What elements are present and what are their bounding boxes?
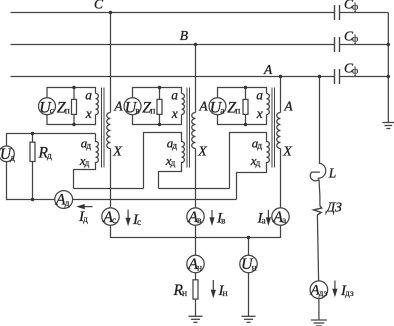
arrow In: [212, 280, 214, 294]
svg-text:A: A: [113, 99, 123, 114]
svg-text:Iд: Iд: [78, 209, 88, 225]
voltmeter Un: [240, 255, 257, 272]
arrow Ic: [127, 210, 129, 223]
svg-text:x: x: [256, 106, 263, 121]
wire bus to Un: [248, 238, 250, 256]
inductor L: [318, 163, 326, 178]
wire cap1 to ground bus: [340, 12, 389, 14]
wire open-delta link xd2-ad3: [159, 188, 230, 190]
ammeter Ad: [55, 191, 73, 209]
arrowhead Ic: [126, 218, 131, 227]
transformer T1 secondary box wires: [47, 88, 96, 99]
winding ad-xd (T3): [230, 133, 270, 200]
resistor Zn (T2): [159, 88, 161, 100]
svg-text:a: a: [256, 87, 263, 102]
wire cap2 to ground bus: [340, 44, 389, 46]
wire T2 primary to Av: [195, 149, 197, 208]
junction dots: [109, 11, 112, 14]
arrow Idz: [334, 281, 336, 294]
core T2: [187, 88, 190, 168]
ground (Adz): [311, 320, 327, 326]
ground (Rn): [189, 316, 203, 322]
svg-text:x: x: [85, 106, 92, 121]
voltmeter U1: [39, 98, 56, 115]
wire neutral bus: [111, 225, 281, 237]
svg-text:a: a: [171, 87, 178, 102]
svg-text:aд: aд: [167, 135, 178, 151]
svg-text:Cф: Cф: [344, 29, 358, 45]
svg-text:X: X: [197, 145, 207, 160]
svg-text:L: L: [328, 166, 337, 181]
svg-text:A: A: [283, 99, 293, 114]
winding A-X (T3 primary): [277, 113, 281, 149]
svg-text:Iс: Iс: [132, 212, 141, 228]
svg-text:X: X: [282, 145, 292, 160]
transformer T3 secondary box wires: [218, 88, 267, 99]
wire T3 primary to Aa: [280, 149, 282, 208]
voltmeter U3: [209, 98, 226, 115]
svg-text:Zп: Zп: [57, 99, 70, 116]
svg-text:xд: xд: [250, 153, 261, 169]
winding ad-xd (T1): [74, 134, 99, 189]
winding a-x (T1 secondary): [96, 94, 99, 115]
svg-text:Rд: Rд: [38, 144, 52, 161]
winding A-X (T2 primary): [192, 113, 196, 149]
wire L branch drop: [319, 77, 321, 164]
svg-text:Cф: Cф: [344, 0, 358, 13]
core T3: [272, 88, 275, 168]
wire DZ to Adz: [317, 215, 318, 281]
wire L to DZ: [318, 179, 321, 205]
wire phase drop T3: [280, 77, 282, 113]
svg-text:Iв: Iв: [216, 210, 226, 226]
resistor Zn (T3): [245, 88, 247, 100]
svg-text:B: B: [180, 28, 188, 43]
arrowhead Idz: [332, 289, 337, 298]
core T1: [102, 88, 105, 168]
ground (Un): [242, 316, 256, 322]
voltmeter Ud: [0, 146, 14, 162]
winding A-X (T1 primary): [107, 113, 111, 149]
phase A busbar: [11, 76, 335, 78]
wire delta return Ad-xd3: [73, 199, 237, 201]
winding ad-xd (T2): [144, 133, 185, 189]
svg-text:ДЗ: ДЗ: [325, 200, 343, 215]
arrowhead Ia: [266, 217, 271, 226]
resistor Rd: [32, 134, 34, 143]
wire phase drop T1: [110, 13, 112, 113]
winding a-x (T3 secondary): [267, 94, 270, 115]
wire Adz to ground: [318, 299, 320, 320]
ammeter Adz: [310, 281, 328, 299]
wire phase drop T2: [195, 45, 197, 113]
svg-text:Rн: Rн: [173, 282, 188, 299]
winding a-x (T2 secondary): [182, 94, 185, 115]
svg-text:Cф: Cф: [344, 61, 358, 77]
ground (right bus): [382, 123, 394, 129]
svg-text:Iдз: Iдз: [340, 283, 354, 299]
right grounding bus: [387, 13, 389, 123]
arrowhead Iv: [209, 217, 214, 226]
capacitor C1 (Cf): [335, 5, 340, 20]
arrow Iv: [211, 210, 213, 222]
svg-text:C: C: [94, 0, 104, 11]
svg-text:A: A: [263, 62, 273, 77]
phase C busbar: [11, 12, 335, 14]
arrow Ia: [267, 210, 269, 222]
ammeter An: [187, 255, 204, 272]
svg-text:xд: xд: [79, 153, 90, 169]
svg-text:x: x: [171, 106, 178, 121]
svg-text:Iн: Iн: [218, 283, 228, 299]
capacitor C2 (Cf): [335, 37, 340, 52]
svg-text:Zп: Zп: [227, 99, 240, 116]
resistor Rn: [195, 273, 197, 280]
wire open-delta link xd1-ad2: [74, 188, 144, 190]
svg-text:a: a: [85, 87, 92, 102]
resistor Zn (T1): [73, 88, 75, 100]
svg-text:aд: aд: [252, 135, 263, 151]
svg-text:xд: xд: [165, 153, 176, 169]
arrowhead In: [211, 290, 216, 299]
transformer T2 secondary box wires: [133, 88, 182, 99]
switch DZ: [314, 206, 322, 215]
voltmeter U2: [124, 98, 141, 115]
wire Ud bottom: [7, 162, 55, 200]
wire cap3 to ground bus: [340, 76, 389, 78]
wire Av to An: [195, 225, 197, 255]
ammeter Av: [187, 208, 204, 225]
arrowhead Id: [76, 204, 85, 209]
wire Un to ground: [248, 273, 250, 316]
wire Ud top: [7, 134, 96, 147]
svg-text:Zп: Zп: [142, 99, 155, 116]
ammeter Aa: [272, 208, 289, 225]
svg-text:aд: aд: [81, 135, 92, 151]
ammeter Ac: [102, 208, 119, 225]
capacitor C3 (Cf): [335, 69, 340, 84]
svg-text:A: A: [198, 99, 208, 114]
svg-text:X: X: [112, 145, 122, 160]
wire T1 primary to Ac: [110, 149, 112, 208]
phase B busbar: [11, 44, 335, 46]
svg-text:Iа: Iа: [257, 210, 267, 226]
arrow Id: [81, 206, 93, 208]
